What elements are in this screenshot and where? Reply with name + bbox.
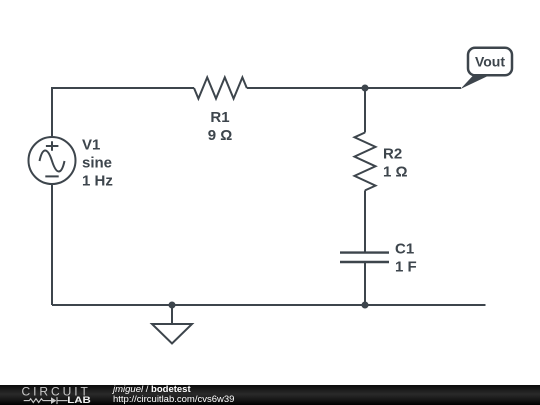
footer text xyxy=(113,385,234,404)
wire: V1 bottom lead xyxy=(51,184,53,305)
wire: top rail from V1 top corner to R1 xyxy=(52,88,194,137)
svg-text:1 Hz: 1 Hz xyxy=(82,173,113,190)
label R2 name/value xyxy=(383,145,408,180)
node B: junction dot on bottom rail at C1 xyxy=(362,302,369,309)
CircuitLab logo xyxy=(0,385,110,405)
resistor R1 xyxy=(194,77,247,98)
wire: node A to R2 top xyxy=(364,88,366,133)
wire: bottom rail xyxy=(52,304,486,306)
node A: junction dot on top rail xyxy=(362,85,369,92)
Vout flag xyxy=(461,48,513,89)
wire: R2 bottom to C1 top plate xyxy=(364,190,366,252)
wire: C1 bottom plate to bottom rail xyxy=(364,262,366,305)
svg-text:C1: C1 xyxy=(395,240,414,257)
svg-text:R2: R2 xyxy=(383,145,402,162)
footer bar xyxy=(0,385,540,405)
svg-text:Vout: Vout xyxy=(475,54,505,70)
svg-text:R1: R1 xyxy=(210,109,229,126)
label V1 name/value xyxy=(82,137,113,190)
svg-text:1 F: 1 F xyxy=(395,258,417,275)
ground xyxy=(152,305,192,344)
svg-text:sine: sine xyxy=(82,154,112,171)
capacitor C1 xyxy=(340,253,389,262)
wire: R1 to Vout node xyxy=(247,87,461,89)
label R1 name/value xyxy=(208,109,233,144)
svg-text:9 Ω: 9 Ω xyxy=(208,127,233,144)
svg-text:V1: V1 xyxy=(82,137,100,154)
node: junction dot at ground xyxy=(169,302,176,309)
voltage source V1 xyxy=(29,137,76,184)
svg-text:LAB: LAB xyxy=(67,395,91,405)
resistor R2 xyxy=(355,133,376,191)
svg-text:1 Ω: 1 Ω xyxy=(383,163,408,180)
label C1 name/value xyxy=(395,240,417,275)
